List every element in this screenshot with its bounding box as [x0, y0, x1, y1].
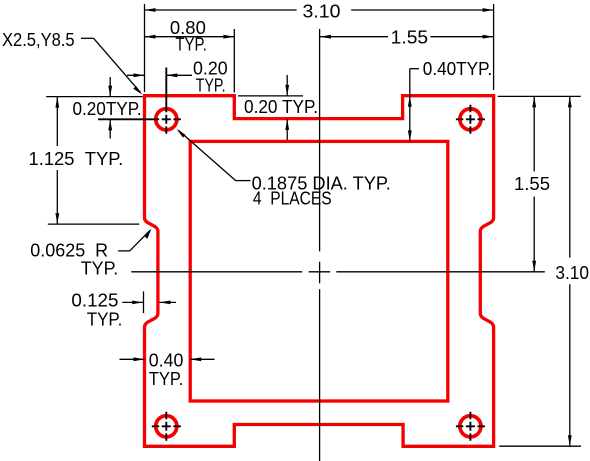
svg-text:1.125 TYP.: 1.125 TYP. [29, 149, 124, 169]
svg-text:TYP.: TYP. [175, 35, 206, 55]
extension line tab step x=234 [233, 29, 235, 93]
svg-text:1.55: 1.55 [391, 28, 428, 48]
dimension 0.20 hole offset top-left [127, 74, 145, 76]
extension line right edge (top) [493, 4, 495, 90]
svg-text:0.40: 0.40 [149, 351, 184, 371]
center mark hole bottom-left [152, 412, 181, 441]
svg-text:0.20TYP.: 0.20TYP. [73, 99, 142, 119]
extension line left notch top [48, 223, 140, 225]
hole circle top-left [156, 109, 177, 130]
extension line bottom edge (right side) [499, 445, 581, 447]
dimension 3.10 right [569, 96, 571, 446]
svg-text:1.55: 1.55 [514, 174, 550, 194]
center mark hole top-right [456, 105, 485, 134]
svg-text:0.20 TYP.: 0.20 TYP. [244, 97, 318, 117]
hole circle top-right [460, 109, 481, 130]
extension line top edge (right side) [498, 95, 581, 97]
dimension 1.55 right [533, 96, 535, 271]
vertical centerline of part [319, 29, 321, 461]
extension line tab top level [238, 95, 303, 97]
dimension 1.55 top [320, 36, 494, 38]
svg-text:TYP.: TYP. [81, 258, 119, 278]
dimension 3.10 top [145, 9, 494, 11]
hole circle bottom-left [156, 416, 177, 437]
svg-text:4 PLACES: 4 PLACES [253, 189, 332, 209]
extension line left edge (top) [144, 4, 146, 92]
svg-text:TYP.: TYP. [87, 310, 123, 330]
dimension 0.20TYP left [109, 77, 111, 139]
svg-text:TYP.: TYP. [196, 75, 226, 95]
inner square [190, 141, 448, 401]
extension tick left edge at 0.125 dim [143, 291, 145, 313]
dimension 0.80 [145, 36, 235, 38]
svg-text:3.10: 3.10 [303, 2, 341, 22]
leader 0.1875 DIA [179, 130, 251, 180]
dimension 1.125 left [56, 97, 58, 225]
part outer outline [145, 96, 494, 447]
dimension 0.20 TYP top-middle [286, 75, 288, 140]
svg-text:0.125: 0.125 [71, 291, 118, 311]
dimension 0.40 bottom-left [120, 358, 215, 360]
svg-text:X2.5,Y8.5: X2.5,Y8.5 [2, 30, 75, 50]
horizontal centerline of part [131, 271, 545, 273]
dimension 0.125 [122, 301, 176, 303]
extension line top edge (left side) [46, 96, 143, 98]
center mark hole top-left (extended) [98, 68, 181, 134]
hole circle bottom-right [460, 416, 481, 437]
svg-text:0.40TYP.: 0.40TYP. [423, 59, 492, 79]
center mark hole bottom-right [456, 412, 485, 441]
svg-text:TYP.: TYP. [149, 369, 184, 389]
svg-text:3.10: 3.10 [555, 263, 589, 283]
dimension 0.40TYP top-right [410, 69, 419, 142]
